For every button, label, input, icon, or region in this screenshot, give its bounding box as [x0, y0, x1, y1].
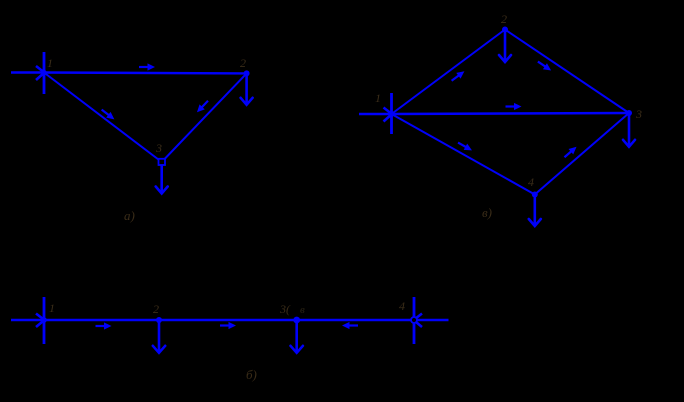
node 1 vertical bar	[390, 93, 393, 134]
edge 1-3 arrow	[99, 107, 116, 122]
node 4 output arrow	[529, 195, 541, 227]
svg-text:2: 2	[153, 302, 159, 316]
edge 1-3	[44, 73, 162, 163]
svg-text:4: 4	[399, 299, 405, 313]
node 3 square	[159, 159, 166, 165]
svg-text:2: 2	[501, 12, 507, 26]
node 1 vertical bar	[43, 297, 46, 344]
edge 2-3 arrow	[194, 98, 210, 115]
edge 4-3 arrow	[562, 144, 579, 160]
node 2 output arrow	[153, 320, 165, 353]
node 2 dot	[502, 27, 508, 33]
edge 2-3	[505, 30, 629, 114]
caption v	[482, 205, 492, 220]
node 1 label	[375, 91, 381, 105]
caption b	[246, 367, 257, 382]
node 3 dot	[293, 317, 300, 324]
node 3 output arrow	[623, 113, 635, 147]
node 2 label	[240, 56, 246, 70]
svg-text:1: 1	[49, 301, 55, 315]
segment 1-2 arrow	[96, 322, 112, 329]
segment 2-3 arrow	[220, 322, 236, 329]
node 3 label	[279, 302, 305, 316]
edge 1-4 arrow	[456, 139, 473, 153]
node 1 input arrowhead	[384, 108, 395, 122]
wire input line to node 1	[11, 71, 44, 73]
edge 4-3	[535, 113, 629, 195]
caption a	[124, 208, 135, 223]
edge 1-2	[44, 71, 247, 74]
svg-text:3(: 3(	[279, 302, 291, 316]
svg-text:3: 3	[155, 141, 162, 155]
edge 2-3	[162, 73, 247, 162]
node 3 output arrow	[156, 165, 168, 194]
node 3 output arrow	[291, 320, 303, 353]
edge 1-2 arrow	[449, 68, 466, 83]
node 1 label	[47, 56, 53, 70]
node 2 dot	[244, 70, 250, 76]
svg-text:в): в)	[482, 205, 492, 220]
edge 1-2 arrow	[139, 63, 155, 70]
svg-text:2: 2	[240, 56, 246, 70]
node 3 label	[635, 107, 642, 121]
node 2 output arrow	[241, 73, 253, 104]
node 2 label	[501, 12, 507, 26]
svg-text:б): б)	[246, 367, 257, 382]
edge 1-3	[392, 113, 630, 114]
segment 4-3 arrow	[342, 322, 358, 329]
edge 1-2	[392, 30, 506, 115]
node 3 dot	[626, 110, 632, 116]
wire input line to node 1	[359, 113, 392, 115]
node 3 label	[155, 141, 162, 155]
node 4 vertical bar	[413, 297, 416, 344]
svg-text:4: 4	[528, 175, 534, 189]
svg-text:3: 3	[635, 107, 642, 121]
edge 1-3 arrow	[506, 103, 522, 110]
node 2 output arrow	[499, 30, 511, 63]
node 1 input arrowhead	[36, 66, 47, 80]
svg-text:1: 1	[375, 91, 381, 105]
svg-text:1: 1	[47, 56, 53, 70]
svg-text:а): а)	[124, 208, 135, 223]
node 1 input arrowhead	[36, 314, 47, 328]
node 1 vertical bar	[43, 52, 46, 94]
node 4 label	[528, 175, 534, 189]
node 2 label	[153, 302, 159, 316]
wire main line	[11, 319, 449, 322]
node 4 circle	[411, 317, 417, 323]
node 4 input arrowhead	[413, 314, 422, 328]
edge 1-4	[392, 114, 535, 195]
node 4 label	[399, 299, 405, 313]
node 1 label	[49, 301, 55, 315]
edge 2-3 arrow	[536, 59, 553, 74]
svg-text:в: в	[300, 304, 305, 316]
node 2 dot	[156, 317, 162, 323]
node 4 dot	[532, 192, 538, 198]
